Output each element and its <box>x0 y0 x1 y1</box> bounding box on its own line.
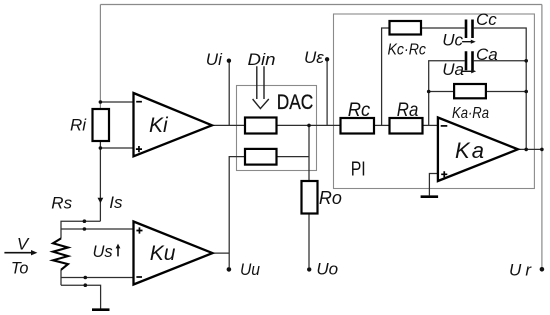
wire: Rs bottom stub <box>60 270 62 285</box>
svg-text:To: To <box>11 258 29 277</box>
wire: Ro to node Uo <box>308 214 310 268</box>
svg-text:Rc: Rc <box>348 100 371 121</box>
svg-text:Ka·Ra: Ka·Ra <box>452 105 489 122</box>
svg-text:Rs: Rs <box>51 194 72 213</box>
wire: node Ui drop line <box>228 61 230 126</box>
arrow Uc right <box>462 40 476 44</box>
svg-text:Is: Is <box>109 193 123 212</box>
svg-text:Ui: Ui <box>206 50 223 69</box>
ground under Rs <box>92 308 110 311</box>
wire: outer bus left vertical down to Ri <box>99 5 101 110</box>
resistor DAC lower <box>245 149 277 165</box>
svg-text:Kc·Rc: Kc·Rc <box>388 42 427 59</box>
svg-text:Uc: Uc <box>442 31 463 50</box>
svg-text:Ri: Ri <box>70 115 87 134</box>
svg-text:Ur: Ur <box>509 261 532 280</box>
wire: Ki + input <box>100 147 133 149</box>
wire: Ka + input to ground <box>429 174 438 196</box>
wire: Kc-Rc to Cc <box>421 27 465 29</box>
wire: to ground bottom-left <box>61 285 101 308</box>
minus sign Ki <box>136 101 142 103</box>
node Uu terminal dot <box>227 267 232 272</box>
svg-text:V: V <box>17 234 30 253</box>
minus sign Ka <box>441 125 448 127</box>
junction dot Rs bottom a <box>84 276 88 280</box>
arrow V input <box>4 250 37 255</box>
arrow Ua right <box>462 69 476 73</box>
junction dot Rs bottom b <box>84 283 88 287</box>
svg-text:Ku: Ku <box>150 242 176 265</box>
arrow Is current <box>98 198 104 204</box>
wire: Rs top link <box>61 221 100 238</box>
wire: vertical main bus to Ro <box>308 125 310 181</box>
wire: Ca to return line <box>474 60 526 62</box>
op-amp U2 Ku <box>134 222 213 285</box>
wire: left vertical below Ri with Is current path <box>99 141 101 221</box>
svg-text:Uu: Uu <box>240 260 260 279</box>
svg-text:Ua: Ua <box>442 60 464 79</box>
node Ue terminal dot <box>325 57 329 61</box>
junction dot return at Ka output <box>524 148 528 152</box>
resistor Rs zigzag <box>53 238 68 269</box>
wire: tap at Ka - input up to Ca branch <box>429 61 465 126</box>
wire: Ku - input <box>61 277 134 279</box>
wire: DAC lower resistor right <box>277 156 310 158</box>
wire: Cc to return line <box>474 28 526 149</box>
wire: Ka-Ra branch right <box>486 91 526 93</box>
junction dot Ki - tap <box>99 100 103 104</box>
block outline DAC <box>237 86 317 171</box>
plus sign Ku <box>136 227 142 233</box>
wire: outer bus right vertical to Ur <box>541 5 543 270</box>
capacitor Ca plates <box>466 51 473 70</box>
op-amp U3 Ka <box>438 118 518 182</box>
resistor DAC upper <box>245 118 277 134</box>
svg-text:Din: Din <box>248 50 276 69</box>
wire: main bus Ki output to DAC resistor <box>212 124 245 126</box>
junction dot Rs top b <box>83 227 87 231</box>
node Uo terminal dot <box>307 267 311 271</box>
svg-text:Uε: Uε <box>304 48 324 67</box>
svg-text:Ka: Ka <box>455 138 484 163</box>
ground at Ka + input <box>421 195 439 198</box>
wire: Ku + input <box>61 228 134 230</box>
svg-text:PI: PI <box>351 158 366 180</box>
svg-text:DAC: DAC <box>277 90 314 114</box>
junction dot Ka-Ra return <box>524 90 528 94</box>
capacitor Cc plates <box>466 20 473 39</box>
svg-text:Ca: Ca <box>476 45 498 64</box>
plus sign Ka <box>441 171 447 177</box>
resistor Kc-Rc <box>390 21 422 35</box>
junction dot Ka output at outer bus <box>540 148 544 152</box>
svg-text:Us: Us <box>93 243 113 261</box>
resistor Ro <box>302 181 318 214</box>
wire: DAC lower resistor left to Uu feedback <box>229 157 245 268</box>
wire: Ku output <box>213 252 230 254</box>
junction dot Ka-Ra left <box>427 90 431 94</box>
node Ui terminal dot <box>227 59 231 63</box>
wire: main bus DAC to Rc <box>277 124 341 126</box>
junction dot main bus to Ro <box>307 124 311 128</box>
arrow Din (hollow) <box>253 66 269 108</box>
wire: tap between Rc and Ra up to Kc-Rc branch <box>382 28 390 125</box>
resistor Rc <box>341 118 375 134</box>
svg-text:Ro: Ro <box>319 188 342 208</box>
wire: main bus Rc to Ra <box>374 124 390 126</box>
svg-text:Ki: Ki <box>149 114 169 137</box>
svg-text:Ra: Ra <box>397 100 419 121</box>
wire: Ka-Ra branch left <box>429 91 454 93</box>
minus sign Ku <box>136 276 142 278</box>
node Ur terminal dot <box>540 267 545 272</box>
junction dot Rs top a <box>83 219 87 223</box>
junction dot Ki + tap <box>99 146 103 150</box>
op-amp U1 Ki <box>134 93 213 156</box>
plus sign Ki <box>136 146 142 152</box>
wire: Ki - input <box>100 101 133 103</box>
junction dot Ca return <box>524 59 528 63</box>
arrow Us up <box>116 244 121 257</box>
wire: outer feedback bus top <box>100 4 542 6</box>
block outline PI <box>334 14 535 189</box>
svg-text:Cc: Cc <box>476 10 497 29</box>
wire: node Ue drop line <box>326 59 328 125</box>
resistor Ri <box>93 109 110 141</box>
svg-text:Uo: Uo <box>316 260 338 279</box>
resistor Ra <box>390 118 423 134</box>
wire: main bus Ra to Ka - input <box>423 124 438 126</box>
wire: Ka output to outer bus <box>518 148 542 150</box>
resistor Ka-Ra <box>454 84 486 98</box>
